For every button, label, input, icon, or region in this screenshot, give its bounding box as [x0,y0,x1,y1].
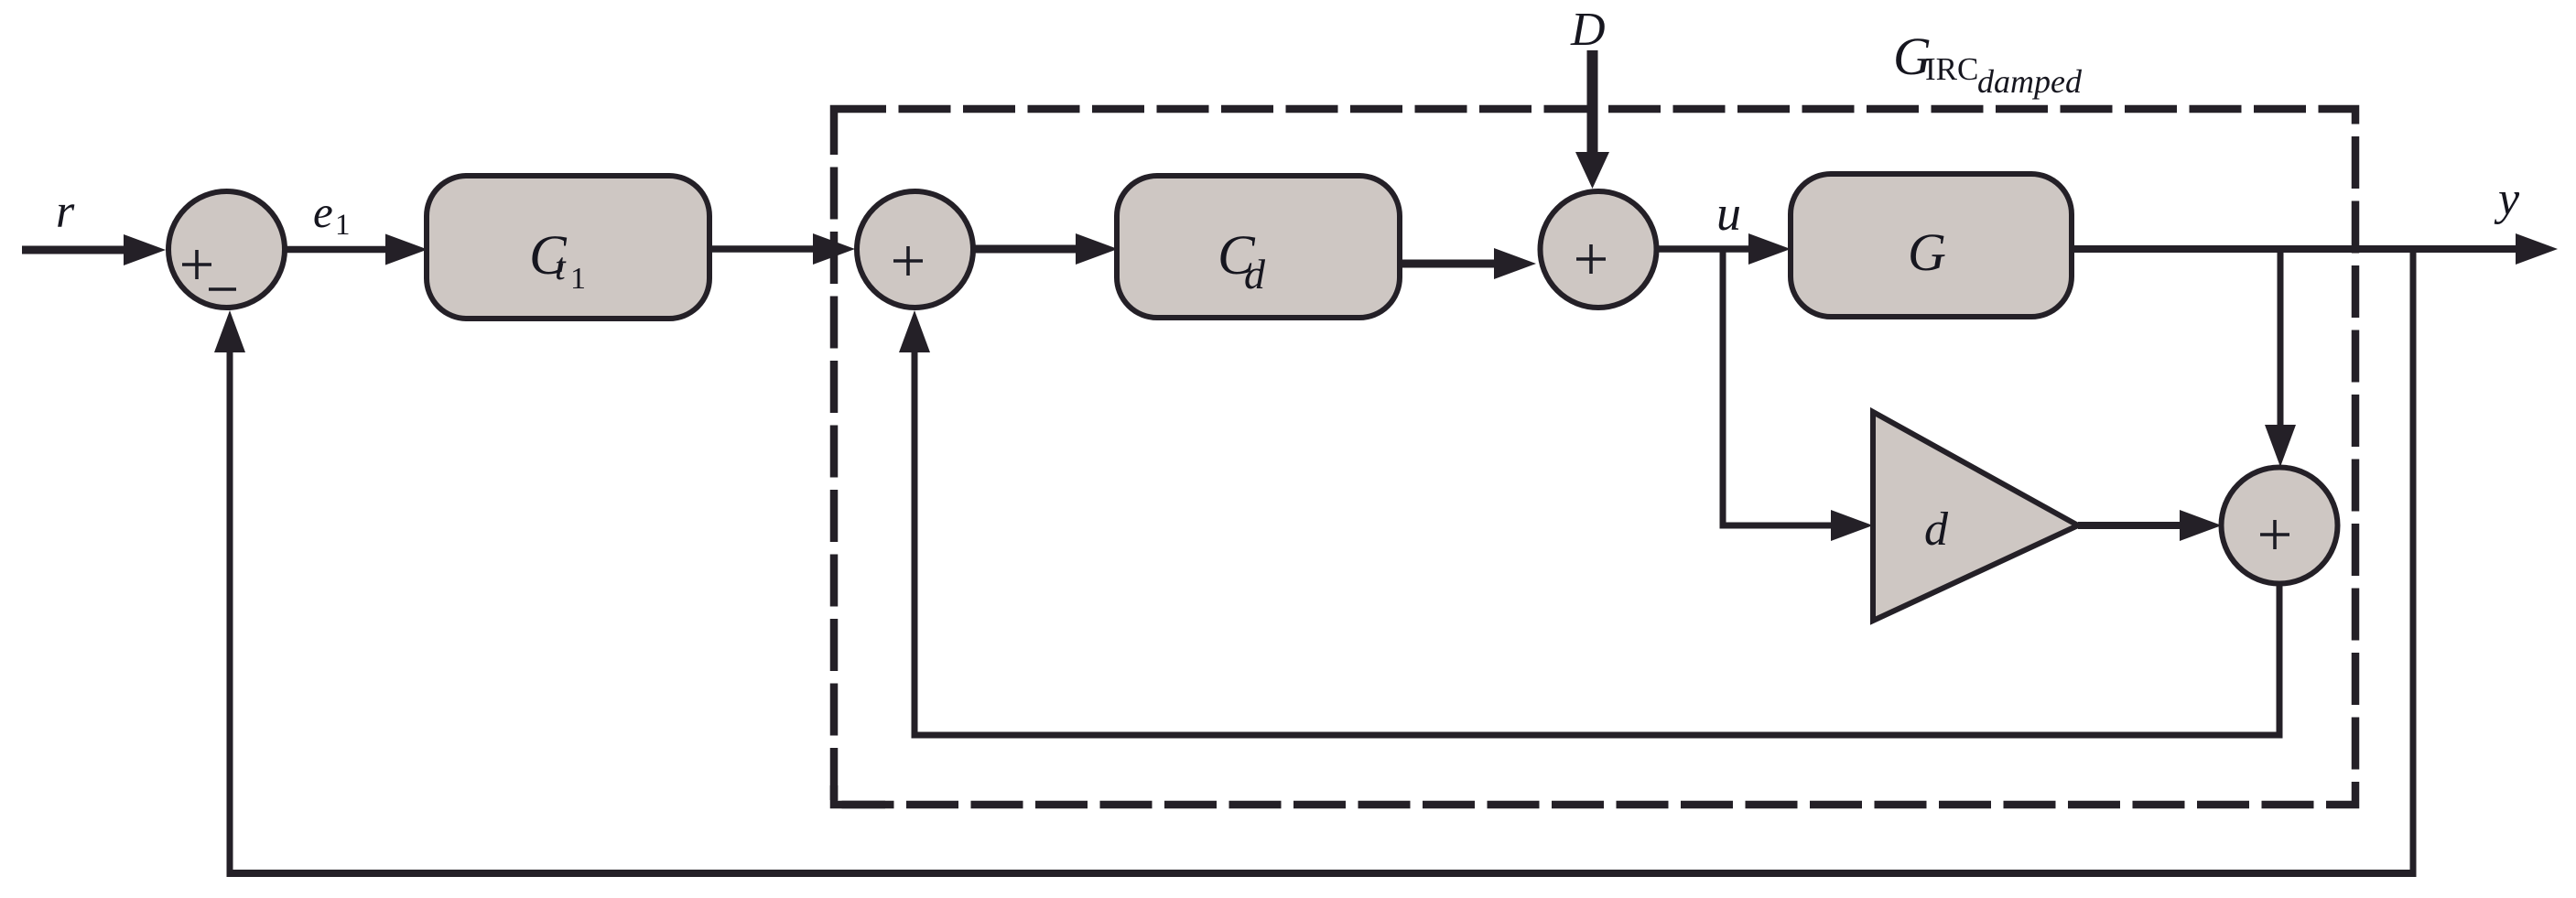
block Cd [1117,176,1400,318]
wire r input [22,234,166,265]
svg-text:G: G [1908,222,1946,282]
svg-text:y: y [2494,173,2520,225]
svg-text:t: t [555,246,567,288]
dashed box G_IRC_damped [834,109,2355,805]
svg-text:r: r [56,186,75,238]
wire D input [1575,50,1609,189]
svg-text:IRC: IRC [1925,51,1978,87]
svg-text:d: d [1924,503,1949,556]
wire S3 to G [1657,233,1791,265]
svg-text:u: u [1716,186,1741,241]
summing junction S2 [857,191,973,308]
wire inner feedback S4 to S2 [899,310,2283,739]
summing junction S3 [1541,191,1657,308]
wire G output to y [2072,233,2558,265]
block G [1791,174,2072,317]
wire u branch to gain d [1720,252,1874,541]
block Ct1 [427,176,709,319]
label G_IRC_damped [1893,27,2083,100]
wire gain d to S4 [2078,510,2222,541]
svg-text:e: e [313,187,333,237]
gain triangle d [1873,412,2078,621]
summing junction S1 [168,191,285,308]
svg-text:1: 1 [335,209,351,242]
summing junction S4 [2222,468,2338,584]
wire Cd to S3 [1400,248,1536,279]
wire S2 to Cd [973,233,1118,265]
node label e1 [313,187,351,242]
wire outer feedback y to S1 [214,249,2417,877]
wire Ct1 to S2 [709,233,855,265]
svg-text:d: d [1244,251,1266,298]
svg-text:damped: damped [1977,63,2083,100]
wire e1 [284,234,428,265]
wire branch from main line down to S4 [2265,249,2296,467]
svg-text:1: 1 [570,262,586,296]
svg-text:D: D [1570,4,1606,56]
